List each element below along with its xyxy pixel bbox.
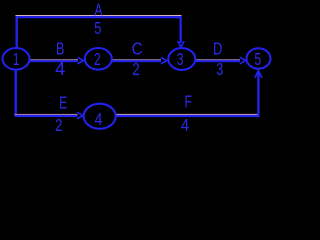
- label 3 (duration of D): [216, 60, 223, 80]
- node 3: [168, 48, 195, 70]
- svg-text:2: 2: [94, 50, 101, 70]
- wire B (node1 to node2): [29, 59, 78, 62]
- wire A vertical right (down into node3): [180, 16, 182, 43]
- wire F horizontal (node4 right): [117, 114, 260, 117]
- node 2 digit: [94, 50, 101, 70]
- label 4 (duration of F): [181, 116, 189, 136]
- svg-text:5: 5: [94, 19, 101, 39]
- label 2 (duration of E): [55, 116, 63, 135]
- label 5 (duration of A): [94, 19, 101, 39]
- node 1 digit: [13, 50, 20, 70]
- label C: [132, 38, 143, 58]
- arrowhead C into node3: [161, 57, 167, 64]
- wire A horizontal top: [16, 15, 182, 18]
- label F: [184, 92, 191, 112]
- svg-text:2: 2: [55, 116, 63, 134]
- node 1: [3, 48, 30, 70]
- node 4 digit: [94, 110, 102, 130]
- wire D (node3 to node5): [196, 59, 240, 62]
- svg-text:C: C: [132, 38, 143, 58]
- label 4 (duration of B): [55, 59, 65, 79]
- label A: [94, 0, 103, 20]
- svg-text:4: 4: [94, 110, 102, 130]
- svg-text:A: A: [94, 0, 103, 20]
- svg-text:E: E: [59, 93, 67, 113]
- arrowhead E into node4: [77, 112, 83, 119]
- wire C (node2 to node3): [112, 59, 161, 62]
- arrowhead D into node5: [240, 57, 246, 64]
- label 2 (duration of C): [132, 60, 140, 79]
- wire E vertical (node1 bottom down): [15, 70, 17, 117]
- svg-text:2: 2: [132, 60, 140, 79]
- node 5: [247, 48, 271, 68]
- node 3 digit: [177, 50, 184, 70]
- node 2: [85, 48, 112, 70]
- svg-text:3: 3: [216, 60, 223, 80]
- node 4: [84, 104, 116, 129]
- wire A vertical left (node1 top up): [16, 16, 18, 49]
- svg-text:3: 3: [177, 50, 184, 70]
- svg-text:5: 5: [254, 50, 261, 70]
- wire F vertical (up into node5): [257, 72, 259, 116]
- label E: [59, 93, 67, 113]
- label B: [56, 39, 64, 59]
- svg-text:F: F: [184, 92, 191, 112]
- svg-text:B: B: [56, 39, 64, 59]
- arrowhead F into node5 bottom: [255, 71, 262, 78]
- wire E horizontal (to node4): [15, 114, 78, 117]
- arrowhead B into node2: [78, 57, 84, 64]
- svg-text:4: 4: [181, 116, 189, 134]
- arrowhead A into node3 top: [178, 41, 184, 47]
- node 5 digit: [254, 50, 261, 70]
- label D: [213, 39, 222, 59]
- svg-text:4: 4: [55, 59, 65, 79]
- svg-text:D: D: [213, 39, 222, 59]
- svg-text:1: 1: [13, 50, 20, 70]
